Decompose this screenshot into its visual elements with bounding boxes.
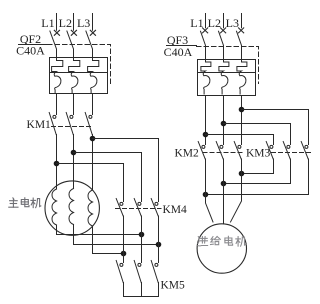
svg-text:L3: L3 bbox=[77, 16, 90, 30]
wire phase1 KM1 to motor bbox=[56, 135, 58, 190]
winding 2 bbox=[69, 189, 74, 225]
wire winding3 bottom to delta bbox=[93, 226, 124, 254]
main motor label (Chinese) bbox=[9, 198, 41, 208]
QF3 trip unit box bbox=[198, 60, 256, 96]
node dot phase3 tap right bbox=[239, 107, 245, 113]
contactor KM4 contact2 bbox=[134, 199, 141, 217]
node dot reverse phase3 bbox=[239, 171, 245, 177]
QF2 trip element pole2 bbox=[69, 58, 80, 94]
contactor KM3 contact1 bbox=[266, 142, 273, 160]
QF3 trip unit box divider bbox=[198, 72, 256, 74]
wire L3 supply right bbox=[241, 14, 243, 28]
feed motor circle M2 bbox=[197, 224, 246, 273]
wire KM4 col2 down to KM5 bbox=[141, 216, 143, 263]
QF2 label fraction bar + linkage lead bbox=[19, 44, 48, 46]
wire L1 supply bbox=[56, 14, 58, 31]
node dot phase3 tap bbox=[90, 136, 96, 142]
QF3 trip linkage dashed bbox=[197, 47, 259, 84]
svg-text:KM4: KM4 bbox=[163, 204, 188, 216]
wire KM4 col1 down to KM5 bbox=[123, 216, 125, 263]
wire phase1 right box to KM2 bbox=[205, 96, 207, 145]
KM4 linkage dashed bbox=[116, 208, 162, 210]
wire KM3 col2 bottom to phase2 bbox=[224, 159, 291, 184]
breaker QF3 blade pole3 bbox=[237, 31, 242, 59]
QF2 trip linkage dashed bbox=[48, 45, 111, 86]
wire winding1 bottom to delta bbox=[57, 225, 142, 235]
contactor KM5 contact1 bbox=[116, 261, 123, 283]
wire tap phase3 to KM3 col3 bbox=[242, 110, 309, 145]
wire phase3 to feed motor bbox=[231, 159, 242, 222]
wire tap phase3 to KM4 col3 bbox=[93, 139, 159, 202]
breaker QF3 terminal mark pole1 bbox=[203, 28, 208, 33]
svg-text:KM1: KM1 bbox=[27, 119, 52, 131]
QF2 trip element pole1 bbox=[52, 58, 63, 94]
contactor KM1 contact1 bbox=[49, 113, 56, 135]
svg-text:L1: L1 bbox=[41, 16, 54, 30]
wire L3 supply bbox=[92, 14, 94, 31]
winding 1 bbox=[52, 189, 57, 225]
breaker QF2 blade pole3 bbox=[86, 31, 93, 58]
wire tap phase1 to KM4 col1 bbox=[57, 164, 124, 202]
contactor KM4 contact1 bbox=[116, 199, 123, 217]
wire winding2 bottom to delta bbox=[74, 225, 159, 245]
QF2 trip element pole3 bbox=[88, 58, 99, 94]
wire phase3 box to KM1 bbox=[92, 94, 94, 115]
node dot delta col3 bbox=[156, 242, 162, 248]
contactor KM5 contact3 bbox=[151, 261, 158, 283]
breaker QF3 terminal mark pole3 bbox=[239, 28, 244, 33]
wire phase2 KM1 to motor bbox=[73, 135, 75, 189]
wire tap phase1 to KM3 col1 bbox=[206, 135, 274, 145]
main motor circle M1 bbox=[45, 181, 99, 235]
wire KM3 col1 bottom to phase3 bbox=[242, 159, 274, 174]
contactor KM4 contact3 bbox=[151, 199, 158, 217]
breaker QF2 terminal mark pole3 bbox=[90, 30, 95, 35]
breaker QF2 blade pole1 bbox=[50, 31, 57, 58]
wire tap phase2 to KM3 col2 bbox=[224, 124, 291, 145]
wire L2 supply right bbox=[223, 14, 225, 28]
KM3 linkage dashed bbox=[272, 152, 311, 154]
breaker QF2 blade pole2 bbox=[67, 31, 74, 58]
contactor KM3 contact3 bbox=[301, 142, 308, 160]
svg-text:L2: L2 bbox=[208, 16, 221, 30]
wire KM5 mid to bar bbox=[141, 283, 143, 297]
wire phase2 right box to KM2 bbox=[223, 96, 225, 145]
contactor KM1 contact2 bbox=[66, 113, 73, 135]
node dot reverse phase1 bbox=[203, 192, 209, 198]
node dot phase2 tap bbox=[71, 150, 77, 156]
wire KM5 star bar bbox=[124, 283, 159, 297]
breaker QF3 blade pole2 bbox=[219, 31, 224, 59]
QF2 trip unit box bbox=[50, 58, 108, 94]
QF3 label fraction bar + lead bbox=[167, 45, 197, 47]
contactor KM2 contact3 bbox=[234, 142, 241, 160]
QF3 trip element pole2 bbox=[219, 60, 229, 95]
wire phase2 to feed motor bbox=[223, 159, 225, 224]
contactor KM2 contact2 bbox=[216, 142, 223, 160]
KM1 linkage dashed bbox=[52, 126, 94, 128]
wire phase1 to feed motor bbox=[206, 159, 214, 222]
wire L1 supply right bbox=[205, 14, 207, 28]
svg-text:C40A: C40A bbox=[16, 44, 45, 58]
node dot reverse phase2 bbox=[221, 181, 227, 187]
svg-text:C40A: C40A bbox=[164, 45, 193, 59]
QF3 trip element pole1 bbox=[201, 60, 211, 95]
wire KM4 col3 down to KM5 bbox=[158, 216, 160, 263]
wire phase2 box to KM1 bbox=[73, 94, 75, 115]
svg-text:KM5: KM5 bbox=[161, 279, 186, 291]
KM2 linkage dashed bbox=[203, 152, 244, 154]
wire phase1 box to KM1 bbox=[56, 94, 58, 115]
node dot phase1 tap right bbox=[203, 132, 209, 138]
breaker QF3 blade pole1 bbox=[201, 31, 206, 59]
svg-text:L2: L2 bbox=[59, 16, 72, 30]
node dot phase1 tap bbox=[54, 161, 60, 167]
node dot phase2 tap right bbox=[221, 121, 227, 127]
wire KM3 col3 bottom to phase1 bbox=[206, 159, 309, 195]
contactor KM5 contact2 bbox=[134, 261, 141, 283]
winding 3 bbox=[88, 190, 93, 226]
contactor KM2 contact1 bbox=[198, 142, 205, 160]
feed motor label (Chinese) bbox=[198, 236, 246, 246]
breaker QF2 terminal mark pole2 bbox=[71, 30, 76, 35]
svg-text:L3: L3 bbox=[226, 16, 239, 30]
node dot delta col1 bbox=[121, 251, 127, 257]
wire tap phase2 to KM4 col2 bbox=[74, 153, 142, 202]
svg-text:L1: L1 bbox=[190, 16, 203, 30]
contactor KM1 contact3 bbox=[85, 113, 92, 135]
QF2 trip unit box divider bbox=[50, 72, 108, 74]
wire phase3 right box to KM2 bbox=[241, 96, 243, 145]
node dot delta col2 bbox=[139, 232, 145, 238]
breaker QF2 terminal mark pole1 bbox=[54, 30, 59, 35]
breaker QF3 terminal mark pole2 bbox=[221, 28, 226, 33]
wire L2 supply bbox=[73, 14, 75, 31]
QF3 trip element pole3 bbox=[237, 60, 247, 95]
svg-text:KM3: KM3 bbox=[246, 147, 271, 159]
svg-text:KM2: KM2 bbox=[175, 147, 200, 159]
wire phase3 KM1 to motor bbox=[92, 135, 94, 191]
contactor KM3 contact2 bbox=[283, 142, 290, 160]
